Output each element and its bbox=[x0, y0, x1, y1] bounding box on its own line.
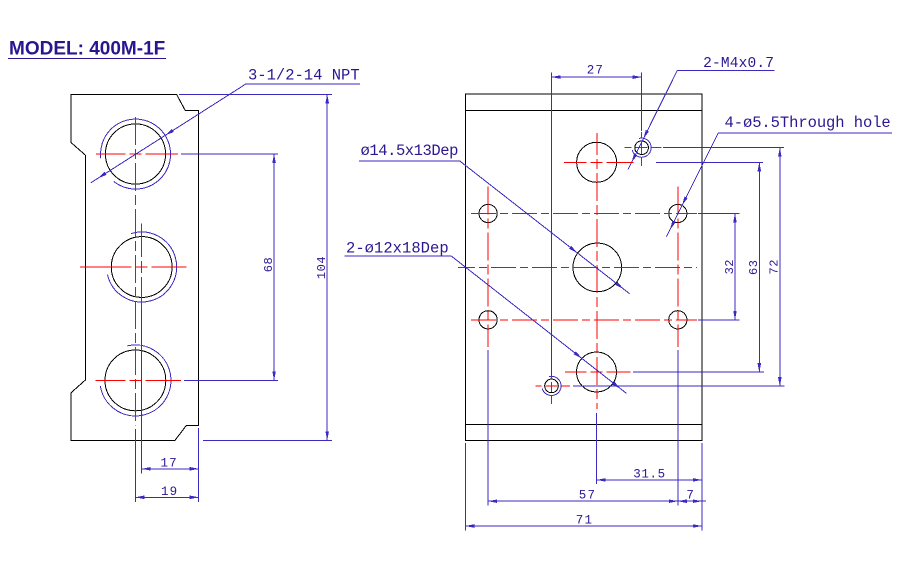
leader 3-1/2-14 NPT bbox=[91, 84, 360, 183]
thread arc middle port bbox=[108, 232, 177, 302]
through hole x5.5 bottom-right bbox=[669, 311, 687, 329]
extension line bolt column right down bbox=[677, 350, 679, 506]
dimension 31.5 line bbox=[597, 479, 702, 481]
centerline horizontal top port bbox=[96, 153, 178, 155]
extension line plate bottom bbox=[203, 439, 332, 441]
svg-text:2-M4x0.7: 2-M4x0.7 bbox=[703, 56, 774, 72]
thread arc M4 bottom bbox=[542, 376, 561, 395]
dimension 27 line bbox=[552, 76, 642, 78]
port hole top (3-1/2-14 NPT) bbox=[105, 124, 165, 184]
dimension 7 line bbox=[678, 500, 706, 502]
centerline vertical bolt column left bbox=[487, 187, 489, 348]
title underline bbox=[8, 58, 166, 60]
svg-text:2-ø12x18Dep: 2-ø12x18Dep bbox=[346, 240, 449, 258]
centerline vertical M4 top bbox=[641, 132, 643, 166]
extension line main column down bbox=[596, 413, 598, 484]
extension line bolt row top right bbox=[698, 213, 740, 215]
centerline horizontal bottom counterbore bbox=[565, 371, 631, 373]
extension line right face down bbox=[198, 428, 200, 502]
extension line plate top bbox=[179, 93, 332, 95]
svg-text:68: 68 bbox=[262, 257, 276, 272]
svg-text:27: 27 bbox=[587, 64, 604, 78]
centerline horizontal M4 bottom bbox=[536, 385, 571, 387]
tapped hole M4 top bbox=[635, 141, 649, 155]
tapped hole M4 bottom bbox=[545, 379, 559, 393]
centerline horizontal middle row bbox=[458, 266, 697, 268]
leader x14.5x13Dep bbox=[359, 161, 630, 294]
svg-text:32: 32 bbox=[723, 259, 737, 274]
svg-text:71: 71 bbox=[576, 514, 593, 528]
leader arrow 2-M4 far bbox=[632, 154, 638, 163]
extension line top port center bbox=[181, 153, 278, 155]
centerline vertical main column x=597 bbox=[596, 133, 598, 409]
centerline vertical M4 bottom bbox=[551, 372, 553, 404]
extension line bolt column left down bbox=[487, 350, 489, 506]
svg-text:72: 72 bbox=[768, 259, 782, 274]
thread arc M4 top bbox=[632, 138, 651, 157]
leader arrow 2-M4 near bbox=[643, 130, 649, 139]
dimension 68 line bbox=[273, 154, 275, 380]
dimension 104 arrow top bbox=[325, 94, 329, 103]
extension line M4 top right bbox=[663, 147, 784, 149]
dimension 32 line bbox=[734, 214, 736, 320]
dimension 72 line bbox=[779, 148, 781, 386]
svg-text:4-ø5.5Through hole: 4-ø5.5Through hole bbox=[725, 114, 891, 132]
extension line bolt row bottom right bbox=[698, 319, 740, 321]
extension line M4 bottom right bbox=[573, 385, 784, 387]
svg-text:ø14.5x13Dep: ø14.5x13Dep bbox=[361, 142, 459, 160]
dimension 104 line bbox=[326, 94, 328, 440]
through hole x5.5 top-left bbox=[479, 204, 497, 222]
centerline horizontal bolt row bottom bbox=[471, 319, 697, 321]
leader arrow NPT far bbox=[98, 172, 107, 178]
centerline vertical middle port bbox=[141, 224, 143, 309]
dimension 17 line bbox=[142, 468, 199, 470]
port hole bottom bbox=[105, 350, 166, 411]
extension line right edge down bbox=[701, 443, 703, 531]
extension line M4 top column up bbox=[641, 72, 643, 131]
dimension 63 line bbox=[758, 162, 760, 372]
dimension 57 line bbox=[488, 500, 678, 502]
extension line middle port center down bbox=[141, 309, 143, 473]
top chamfer edge bbox=[465, 110, 702, 112]
leader arrow 4-x5.5 far bbox=[670, 221, 676, 230]
centerline horizontal M4 top bbox=[625, 147, 662, 149]
svg-text:7: 7 bbox=[686, 489, 695, 503]
leader arrow 2-x12 near bbox=[574, 351, 582, 358]
svg-text:3-1/2-14 NPT: 3-1/2-14 NPT bbox=[248, 67, 360, 85]
svg-text:19: 19 bbox=[161, 485, 178, 499]
svg-text:17: 17 bbox=[160, 456, 177, 470]
through hole x5.5 top-right bbox=[669, 204, 687, 222]
extension line bottom port center bbox=[184, 379, 278, 381]
centerline vertical bolt column right bbox=[677, 187, 679, 348]
centerline vertical column x=135.5 bbox=[135, 117, 137, 426]
svg-text:104: 104 bbox=[315, 256, 329, 279]
thread arc bottom port bbox=[100, 345, 171, 416]
bottom chamfer edge bbox=[465, 424, 702, 426]
centerline horizontal bolt row top bbox=[471, 213, 697, 215]
left view body outline bbox=[71, 94, 199, 440]
leader arrow NPT near bbox=[165, 129, 174, 135]
centerline horizontal top counterbore bbox=[564, 161, 634, 163]
leader arrow 2-x12 far bbox=[612, 382, 620, 389]
dimension 68 arrow top bbox=[272, 154, 276, 163]
extension line M4 bottom column up bbox=[551, 72, 553, 375]
dimension 104 arrow bottom bbox=[325, 431, 329, 440]
leader 2-x12x18Dep bbox=[344, 256, 626, 394]
extension line top counterbore right bbox=[656, 161, 763, 163]
leader arrow x14.5 near bbox=[569, 246, 577, 253]
leader 4-x5.5Through hole bbox=[666, 133, 892, 237]
extension line bottom counterbore right bbox=[633, 371, 764, 373]
centerline horizontal middle port bbox=[80, 266, 187, 268]
dimension 19 line bbox=[135, 496, 198, 498]
dimension 68 arrow bottom bbox=[272, 371, 276, 380]
through hole x5.5 bottom-left bbox=[479, 311, 497, 329]
extension line port column down bbox=[134, 429, 136, 502]
counterbore hole bottom (2-x12x18) bbox=[577, 352, 617, 392]
svg-text:63: 63 bbox=[747, 260, 761, 275]
leader 2-M4x0.7 bbox=[628, 70, 775, 169]
svg-text:MODEL: 400M-1F: MODEL: 400M-1F bbox=[9, 39, 165, 60]
centerline horizontal bottom port bbox=[95, 379, 180, 381]
svg-text:57: 57 bbox=[579, 489, 596, 503]
right view body outline bbox=[465, 94, 702, 440]
leader arrow 4-x5.5 near bbox=[682, 196, 688, 205]
extension line left edge down bbox=[464, 443, 466, 531]
svg-text:31.5: 31.5 bbox=[633, 467, 665, 481]
center hole (x14.5x13) bbox=[573, 243, 622, 292]
dimension 71 line bbox=[465, 525, 702, 527]
thread arc top port bbox=[101, 119, 171, 189]
counterbore hole top (2-x12x18) bbox=[577, 142, 617, 182]
port hole middle bbox=[111, 237, 172, 298]
leader arrow x14.5 far bbox=[615, 282, 623, 289]
